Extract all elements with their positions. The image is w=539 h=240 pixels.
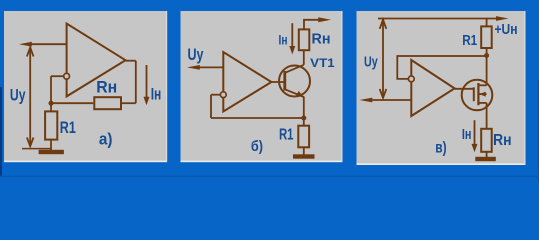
supply arrow v [496,16,509,21]
svg-text:R1: R1 [60,119,76,137]
svg-text:+Uн: +Uн [495,22,518,38]
resistor RH panel b [299,29,310,50]
node emitter junction b [301,116,306,121]
wire dot to R1 a [50,103,52,111]
wire RH to ground v [486,152,488,157]
svg-text:Rн: Rн [96,78,117,96]
svg-text:R1: R1 [279,126,294,143]
resistor RH panel a [94,97,121,109]
panel v background [357,11,526,165]
inverting input circle b [220,92,226,98]
ground b [293,154,315,158]
svg-text:Iн: Iн [462,127,472,143]
transistor VT1 [279,65,310,97]
wire top rail b [304,20,319,30]
resistor R1 panel v [481,26,492,48]
resistor R1 panel a [45,111,57,139]
wire R1 to ground b [303,147,305,154]
bottom dark line [0,176,539,177]
wire emitter b [303,97,305,119]
svg-text:Iн: Iн [279,32,288,48]
wire source v [486,103,488,129]
input terminal arrow b [187,65,200,70]
wire top rail v [378,18,497,20]
wire feedback left a [51,102,93,104]
wire feedback bottom b [211,117,304,119]
current arrow IH a [144,65,150,105]
svg-text:Uy: Uy [364,55,378,71]
output arrow b [318,17,331,22]
svg-text:б): б) [251,138,263,155]
op-amp A1 panel v [411,60,454,116]
wire bottom rail a [22,148,51,150]
wire output vertical a [135,61,137,103]
node junction a [49,101,54,106]
svg-text:в): в) [435,139,446,156]
wire R1 bottom v [486,48,488,85]
panel a circuit [19,24,150,155]
ground a [39,150,64,154]
panel b circuit [187,17,331,158]
wire inverting stub a [51,75,64,77]
wire feedback v [397,56,486,79]
voltage arrow Uy v [380,20,387,98]
panel b background [181,11,343,162]
wire collector b [303,50,305,65]
right edge dark stripe [538,80,539,181]
resistor R1 panel b [298,126,309,148]
current arrow IH v [472,120,478,152]
svg-text:Iн: Iн [151,86,162,104]
wire R1 top b [303,118,305,126]
svg-text:Uy: Uy [10,86,26,104]
svg-text:VT1: VT1 [310,58,335,70]
ground v [475,157,496,161]
panel a background [4,11,167,162]
wire noninverting input a [29,43,67,45]
svg-text:Rн: Rн [493,132,512,149]
svg-text:R1: R1 [462,32,477,49]
wire R1 stub v [486,19,488,27]
wire inverting stub b [211,94,220,96]
resistor RH panel v [481,129,492,152]
wire feedback vertical a [50,76,52,103]
wire noninverting input b [198,66,223,68]
svg-text:Rн: Rн [312,30,331,47]
svg-text:Uy: Uy [188,46,205,64]
op-amp A1 panel b [223,52,271,112]
input terminal arrow a [19,42,32,47]
left edge dark stripe [0,87,2,177]
inverting input circle v [408,76,414,82]
node feedback junction v [484,53,489,58]
mosfet VT v [462,80,493,111]
input terminal arrow v [360,98,373,103]
voltage arrow Uy a [27,47,34,146]
wire gate v [455,88,473,90]
inverting input circle a [64,73,70,79]
wire R1 to ground a [50,140,52,150]
svg-text:а): а) [99,130,113,148]
wire output horizontal a [126,60,136,62]
wire feedback down b [210,95,212,118]
wire noninverting input v [371,99,411,101]
panel v circuit [360,16,509,161]
op-amp A1 panel a [67,24,126,97]
current arrow IH b [289,23,295,54]
wire base b [271,81,283,83]
wire RH to output a [121,102,136,104]
